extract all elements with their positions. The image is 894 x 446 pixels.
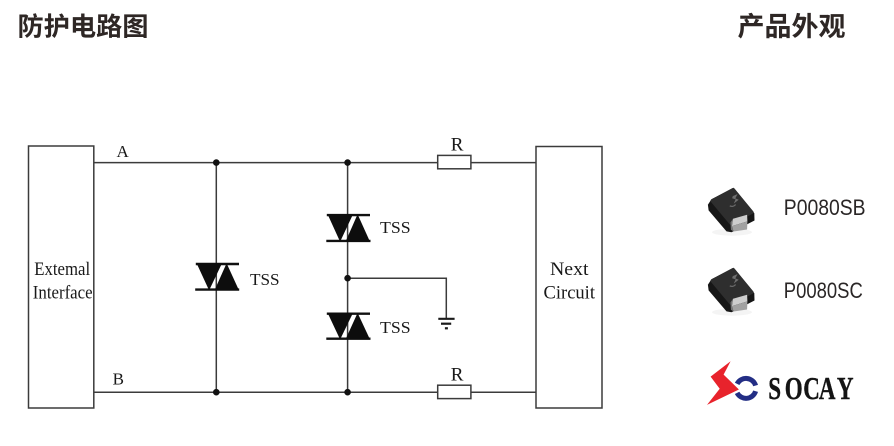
wire: line B from resistor R to Next Circuit — [471, 391, 536, 393]
resistor R (bottom) — [438, 385, 471, 398]
svg-text:B: B — [113, 370, 124, 389]
chip photo: P0080SC package — [708, 268, 755, 316]
svg-text:C: C — [803, 372, 820, 408]
heading: 防护电路图 (protection circuit diagram title) — [19, 13, 146, 38]
svg-text:Extemal: Extemal — [34, 259, 90, 280]
svg-text:Interface: Interface — [33, 282, 93, 303]
svg-text:R: R — [451, 135, 464, 156]
svg-text:Y: Y — [837, 372, 854, 408]
chip photo: P0080SB package — [708, 188, 755, 236]
logo: SOCAY wordmark — [768, 372, 853, 408]
svg-text:TSS: TSS — [380, 218, 411, 237]
svg-text:A: A — [819, 372, 836, 408]
svg-text:Circuit: Circuit — [544, 282, 596, 303]
heading: 产品外观 (product appearance title) — [738, 13, 845, 39]
svg-text:A: A — [117, 142, 130, 161]
TSS device 3 (lower device on branch 2) — [326, 313, 370, 340]
svg-text:S: S — [768, 372, 781, 408]
wire: branch 2 vertical (TSS2/TSS3 across A-B) — [347, 163, 349, 393]
wire: line A from resistor R to Next Circuit — [471, 162, 536, 164]
svg-text:P0080SB: P0080SB — [784, 195, 866, 220]
wire: line B from External Interface to resistor R (bottom) — [94, 391, 438, 393]
wire: branch 1 vertical (TSS1 across A-B) — [215, 163, 217, 393]
svg-text:O: O — [785, 372, 803, 408]
box: Next Circuit — [536, 147, 602, 409]
logo: SOCAY blue C ring — [737, 378, 756, 398]
svg-text:TSS: TSS — [250, 270, 280, 289]
svg-text:R: R — [451, 365, 464, 386]
svg-text:TSS: TSS — [380, 318, 411, 337]
wire: line A from External Interface to resistor R (top) — [94, 162, 438, 164]
ground symbol — [438, 319, 454, 329]
TSS device 1 (bidirectional suppressor on branch 1) — [195, 263, 239, 290]
node: junction B / branch2 — [344, 389, 351, 396]
node: junction A / branch1 — [213, 159, 220, 166]
TSS device 2 (upper device on branch 2) — [326, 214, 370, 241]
resistor R (top) — [438, 155, 471, 168]
svg-text:P0080SC: P0080SC — [784, 278, 863, 303]
node: branch 2 midpoint to ground — [344, 275, 351, 282]
node: junction A / branch2 — [344, 159, 351, 166]
box: External Interface — [29, 146, 94, 408]
wire: ground connection from branch 2 midpoint — [348, 278, 447, 318]
svg-text:Next: Next — [550, 259, 589, 280]
logo: SOCAY red lightning bolt — [707, 361, 739, 405]
node: junction B / branch1 — [213, 389, 220, 396]
